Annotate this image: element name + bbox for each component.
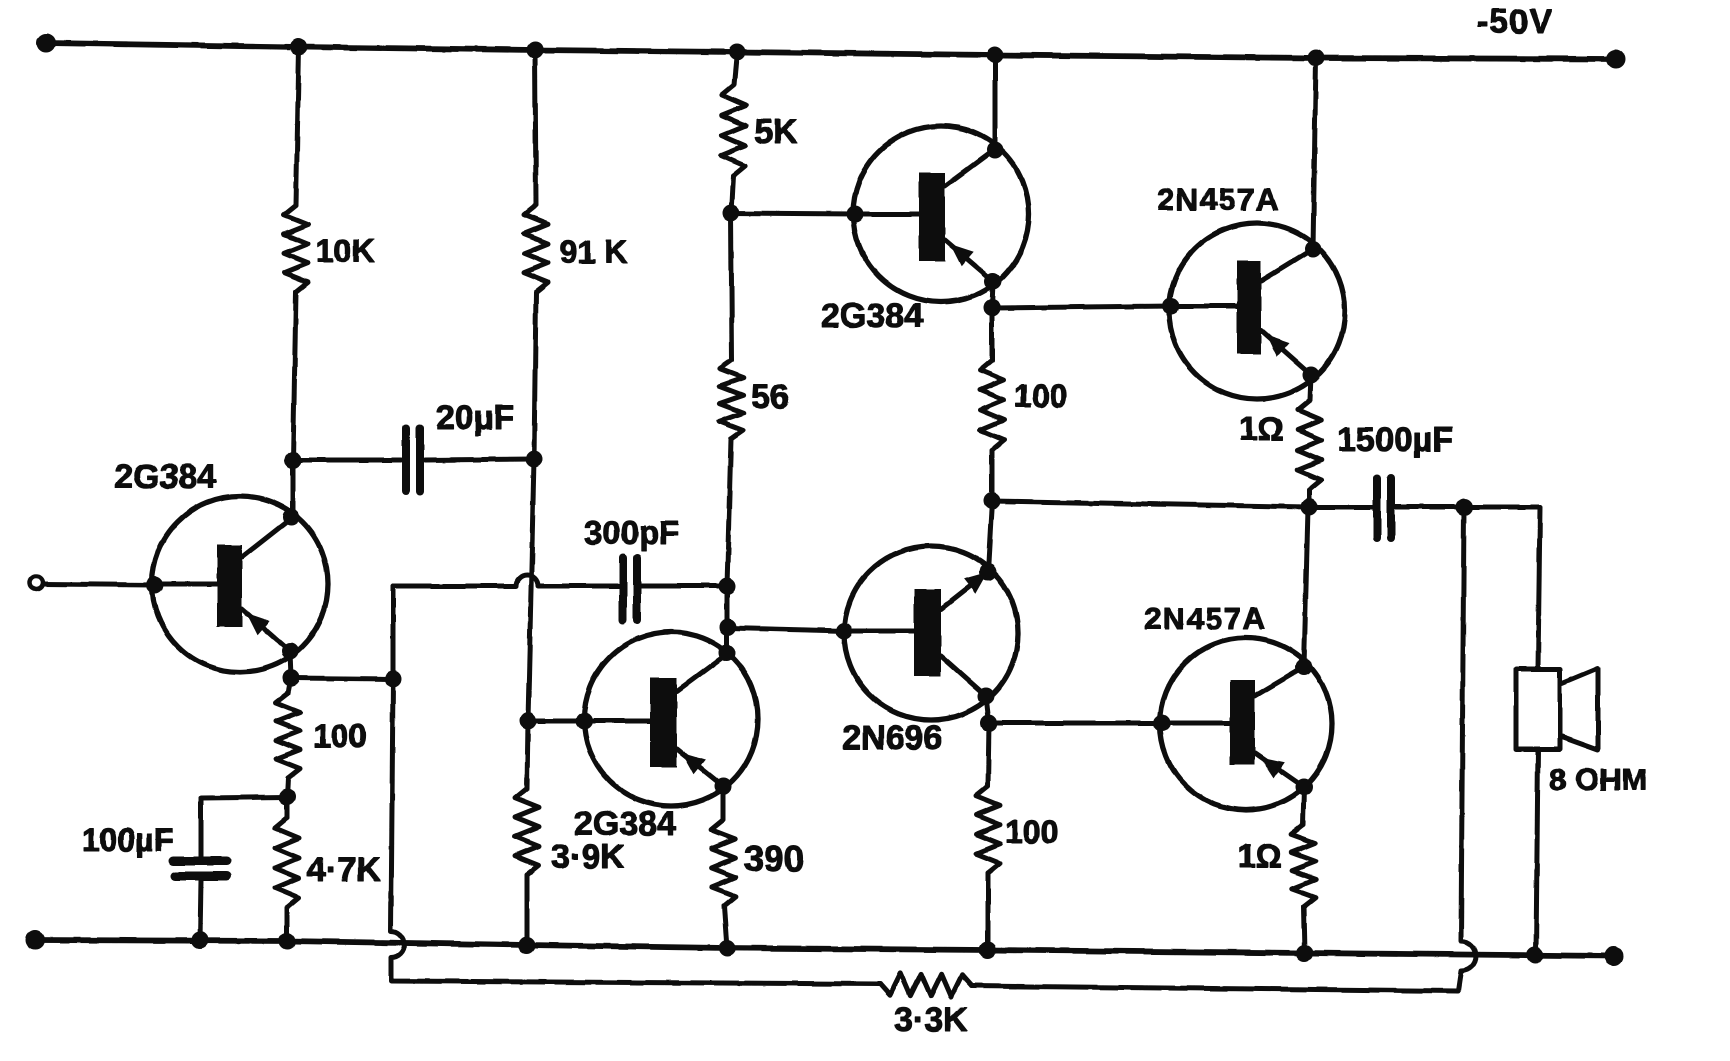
wire Q2 base node to Q2 xyxy=(731,213,857,214)
wire R8 bottom to rail xyxy=(525,875,530,945)
svg-text:20µF: 20µF xyxy=(436,399,514,437)
wire node down to R4 top xyxy=(731,213,732,360)
node Q6 collector edge xyxy=(1296,659,1312,675)
node driver output junction xyxy=(984,493,1000,509)
resistor R1 10K xyxy=(284,205,308,292)
svg-text:2N457A: 2N457A xyxy=(1157,182,1280,217)
transistor Q2 2G384 xyxy=(853,126,1029,302)
wire R3 bottom to Q2 base node xyxy=(731,176,733,213)
resistor R11 1 ohm xyxy=(1297,400,1322,490)
node R7 ground xyxy=(279,933,295,949)
wire Q6 collector to output line xyxy=(1304,508,1308,667)
svg-text:100: 100 xyxy=(1005,814,1058,850)
wire 3.3K to output node, hops over ground rail xyxy=(972,507,1476,991)
node Q1 collector junction xyxy=(285,452,301,468)
node C3 ground xyxy=(192,932,208,948)
wire R5 bottom to output junction xyxy=(990,450,995,501)
node top rail right terminal xyxy=(1607,50,1625,68)
svg-text:10K: 10K xyxy=(316,233,375,269)
node Q2 collector edge xyxy=(987,142,1003,158)
node Q1 collector edge xyxy=(283,509,299,525)
node Q2 emitter edge xyxy=(985,273,1001,289)
node R8 ground xyxy=(519,937,535,953)
wire rail to R2 top xyxy=(535,50,536,205)
node bottom rail left terminal xyxy=(26,931,44,949)
wire Q3 emitter to R9 xyxy=(721,786,726,820)
node C4 output junction xyxy=(1456,499,1472,515)
node Q1 emitter junction xyxy=(283,670,299,686)
wire feedback column, hops over ground rail xyxy=(391,586,880,984)
svg-text:100: 100 xyxy=(313,718,366,754)
transistor Q3 2G384 xyxy=(529,632,758,806)
wire C1 right to 91K column xyxy=(425,459,534,460)
wire Q5 emitter to R11 xyxy=(1310,375,1311,400)
svg-text:3·3K: 3·3K xyxy=(894,1001,968,1039)
node 300pF right junction xyxy=(719,578,735,594)
resistor R10 100 xyxy=(976,786,1000,873)
svg-text:3·9K: 3·9K xyxy=(551,838,625,876)
capacitor C1 20uF left wire xyxy=(293,458,401,463)
wire R11 to output line xyxy=(1307,490,1312,507)
svg-text:-50V: -50V xyxy=(1477,3,1553,41)
node Q3 base junction xyxy=(520,713,536,729)
svg-text:56: 56 xyxy=(751,378,789,416)
wire 100uF branch down xyxy=(199,798,204,858)
wire C3 bottom to rail xyxy=(200,880,201,940)
wire Q1 emitter junction to feedback column xyxy=(291,678,393,679)
resistor R7 4.7K xyxy=(275,818,299,908)
svg-text:2N696: 2N696 xyxy=(842,719,942,757)
node 20uF right junction xyxy=(526,451,542,467)
svg-text:1Ω: 1Ω xyxy=(1238,838,1281,874)
wire Q4 base junction to Q4 xyxy=(729,628,846,631)
wire input to Q1 base xyxy=(43,584,155,585)
resistor R13 3.3K xyxy=(880,973,972,996)
node Q1 emitter edge xyxy=(282,643,298,659)
wire emitter junction to R6 xyxy=(288,678,291,693)
node feedback junction xyxy=(385,671,401,687)
wire rail to R1 top xyxy=(296,47,299,205)
wire Q5 base junction to Q5 xyxy=(992,306,1173,308)
resistor R2 91K xyxy=(524,205,548,292)
wire C4 to speaker corner xyxy=(1395,505,1540,510)
wire Q6 base junction to Q6 xyxy=(989,721,1164,726)
capacitor C2 300pF xyxy=(623,558,637,620)
svg-text:2G384: 2G384 xyxy=(821,297,923,335)
svg-text:1Ω: 1Ω xyxy=(1239,410,1284,447)
svg-text:4·7K: 4·7K xyxy=(307,851,381,889)
node rail junction 5K column xyxy=(729,44,745,60)
wire bottom ground rail xyxy=(35,940,1614,956)
svg-text:1500µF: 1500µF xyxy=(1337,421,1453,459)
resistor R3 5K xyxy=(721,85,746,176)
node Q4 emitter edge xyxy=(980,564,996,580)
wire R10 bottom to rail xyxy=(986,873,991,950)
node R10 ground xyxy=(980,942,996,958)
wire R12 bottom to rail xyxy=(1304,907,1305,953)
wire Q5 collector to rail xyxy=(1313,59,1316,249)
transistor Q6 2N457A xyxy=(1160,638,1332,810)
wire output corner down to speaker xyxy=(1538,507,1540,669)
svg-text:100: 100 xyxy=(1014,378,1067,414)
capacitor C4 1500uF xyxy=(1377,478,1391,538)
wire junction to R10 xyxy=(988,723,989,786)
node Q3 base edge xyxy=(576,713,592,729)
wire C2 right to 56 column xyxy=(641,584,727,589)
wire node to R7 top xyxy=(285,797,290,818)
wire junction to R8 top xyxy=(527,721,528,788)
node Q3 collector edge xyxy=(719,645,735,661)
node Q3 emitter edge xyxy=(715,778,731,794)
resistor R12 1 ohm xyxy=(1291,825,1316,907)
node Q6 emitter edge xyxy=(1296,779,1312,795)
wire R6 to R7 node xyxy=(287,778,288,797)
wire rail to R3 top xyxy=(734,52,737,85)
resistor R9 390 xyxy=(711,820,736,906)
wire speaker bottom to rail xyxy=(1536,749,1538,954)
svg-text:2G384: 2G384 xyxy=(574,805,676,843)
resistor R6 100 xyxy=(276,693,300,778)
wire Q1 emitter feedback to C2, hops over 91K column xyxy=(393,575,619,586)
node Q2 base edge xyxy=(847,206,863,222)
node Q2 base junction xyxy=(723,205,739,221)
node Q5 base edge xyxy=(1163,298,1179,314)
wire to Q4 base junction xyxy=(725,586,730,627)
node Q5 collector rail xyxy=(1308,50,1324,66)
node R12 ground xyxy=(1297,945,1313,961)
resistor R4 56 xyxy=(719,360,744,439)
node R9 ground xyxy=(719,940,735,956)
wire Q2 collector to rail xyxy=(993,56,998,149)
node speaker ground xyxy=(1527,947,1543,963)
node Q5 emitter edge xyxy=(1303,367,1319,383)
node Q4 base junction xyxy=(720,619,736,635)
node Q6 base edge xyxy=(1154,715,1170,731)
resistor R5 100 xyxy=(980,360,1004,450)
node output junction at 1 ohm xyxy=(1301,499,1317,515)
wire R4 bottom to 300pF node xyxy=(727,439,731,586)
svg-text:2G384: 2G384 xyxy=(114,458,216,496)
node Q6 base junction xyxy=(981,715,997,731)
wire Q4 base junction to Q3 collector xyxy=(725,627,730,653)
svg-text:100µF: 100µF xyxy=(82,822,173,858)
wire 100uF branch horizontal xyxy=(201,797,287,798)
wire R1 bottom to Q1 collector node xyxy=(293,292,296,460)
node Q4 base edge xyxy=(836,623,852,639)
wire junction to R5 top xyxy=(990,308,995,360)
svg-text:390: 390 xyxy=(744,838,804,879)
transistor Q4 2N696 xyxy=(844,546,1018,720)
transistor Q1 2G384 xyxy=(152,496,328,672)
wire top supply rail -50V xyxy=(46,43,1616,59)
node Q5 collector edge xyxy=(1305,241,1321,257)
resistor R8 3.9K xyxy=(515,788,539,875)
capacitor C3 100uF xyxy=(173,861,227,876)
wire Q6 emitter to R12 xyxy=(1303,787,1304,825)
transistor Q5 2N457A xyxy=(1169,223,1345,399)
svg-text:91 K: 91 K xyxy=(560,234,628,270)
wire driver junction to output node xyxy=(992,501,1373,507)
node rail junction 91K column xyxy=(527,42,543,58)
input terminal xyxy=(30,577,43,590)
wire R9 bottom to rail xyxy=(724,906,727,948)
node Q4 collector edge xyxy=(978,688,994,704)
wire collector node down to Q1 xyxy=(291,460,296,517)
wire Q2 emitter down xyxy=(992,281,993,308)
node rail junction 10K column xyxy=(291,39,307,55)
wire Q4 top to output junction xyxy=(988,501,992,572)
svg-text:2N457A: 2N457A xyxy=(1144,601,1267,636)
svg-text:300pF: 300pF xyxy=(584,514,679,551)
svg-text:8 OHM: 8 OHM xyxy=(1549,762,1647,797)
wire Q1 emitter down xyxy=(290,651,291,678)
node Q2 collector rail xyxy=(987,47,1003,63)
wire 91K column down to Q3 base junction xyxy=(528,459,534,721)
speaker LS1 8 ohm xyxy=(1516,668,1598,750)
node 100uF junction xyxy=(279,789,295,805)
node Q1 base edge xyxy=(147,577,163,593)
node top rail left terminal xyxy=(37,34,55,52)
node bottom rail right terminal xyxy=(1605,947,1623,965)
wire Q4 bottom to junction xyxy=(986,696,989,723)
wire R7 bottom to rail xyxy=(285,908,290,941)
wire R2 bottom to 20uF node xyxy=(534,292,536,459)
svg-text:5K: 5K xyxy=(754,113,798,151)
capacitor C1 20uF xyxy=(406,428,420,492)
node Q5 base junction xyxy=(984,300,1000,316)
